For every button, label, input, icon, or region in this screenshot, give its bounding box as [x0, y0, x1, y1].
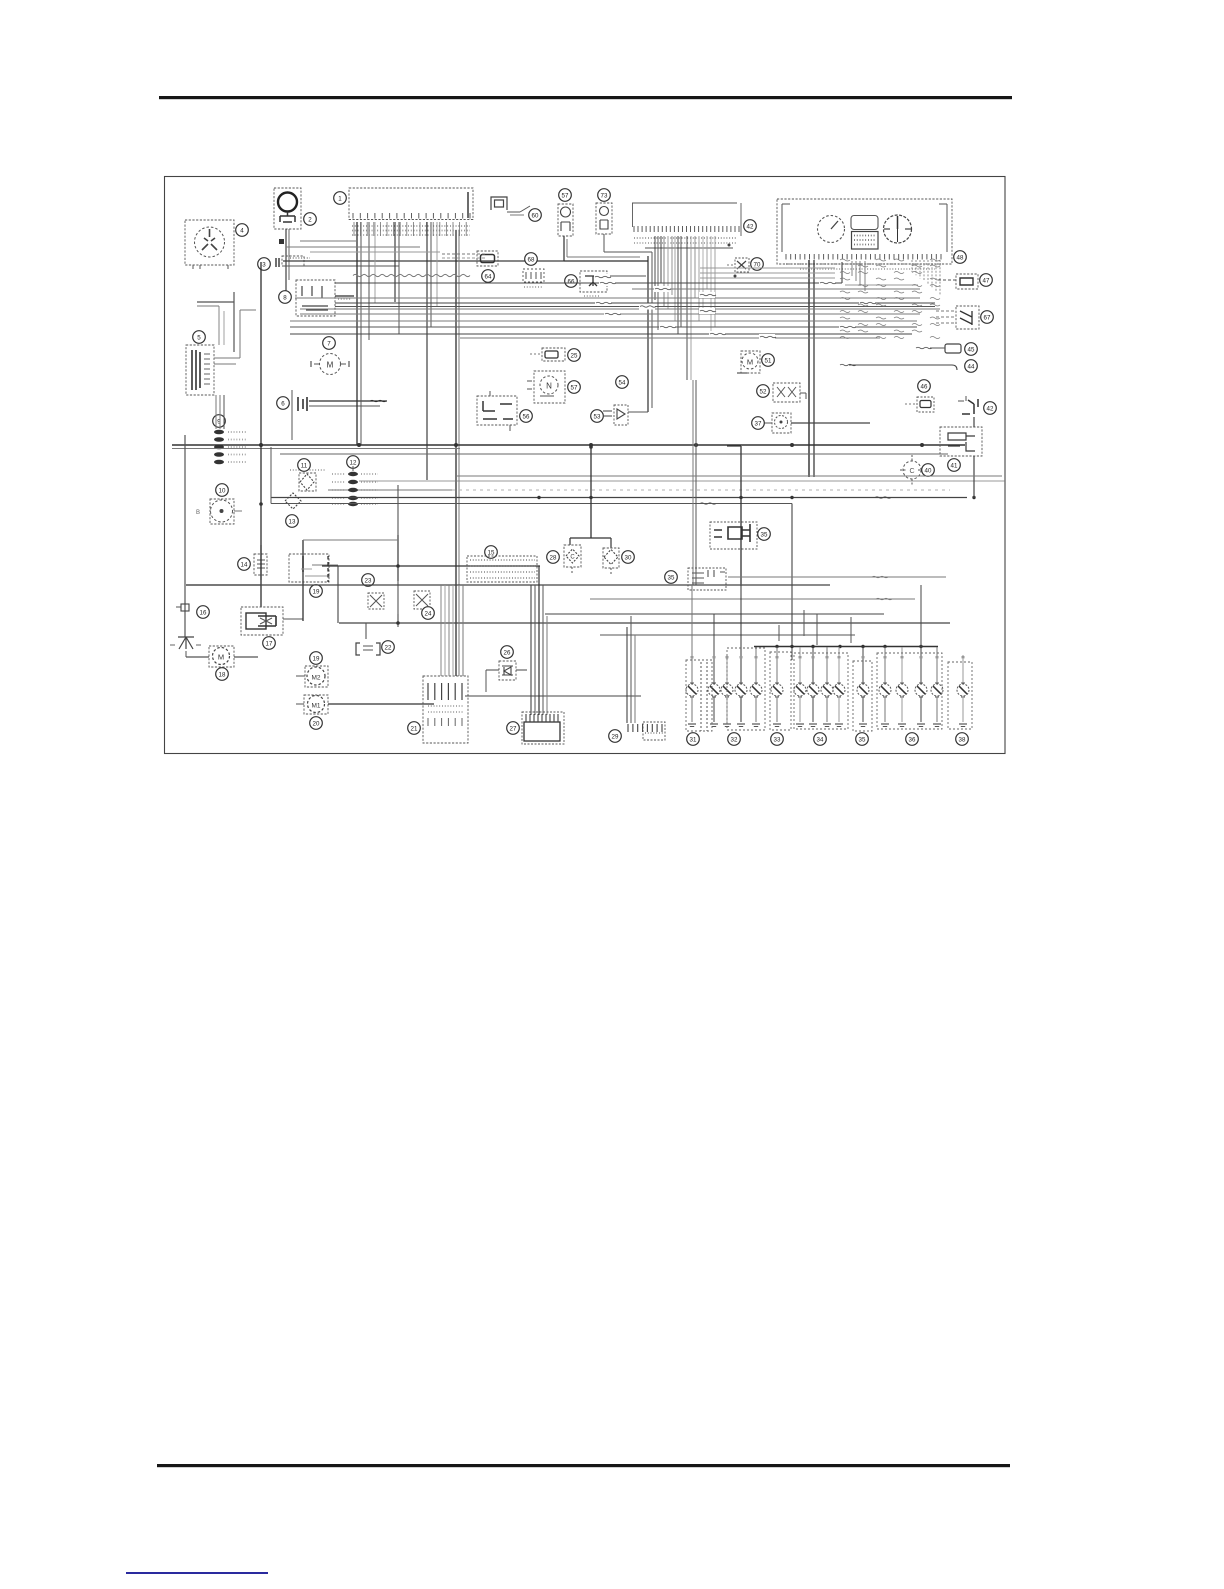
main trunk wires	[356, 222, 358, 445]
connector 29	[643, 722, 665, 740]
wire	[458, 585, 460, 676]
svg-text:48: 48	[957, 254, 964, 261]
connector 15 block	[485, 546, 498, 559]
harness connector 42	[632, 202, 737, 204]
wire	[185, 651, 187, 657]
svg-text:64: 64	[485, 273, 492, 280]
flasher relay 11	[299, 473, 316, 491]
fan motor 18	[209, 646, 234, 667]
svg-text:54: 54	[619, 379, 626, 386]
main bus wire	[172, 444, 965, 446]
svg-text:37: 37	[755, 420, 762, 427]
connector 9 stack	[214, 430, 224, 435]
svg-text:C: C	[909, 468, 914, 475]
instrument cluster 48	[777, 199, 952, 264]
diode 13	[285, 493, 301, 509]
svg-text:35: 35	[668, 574, 675, 581]
wire 44	[840, 364, 856, 365]
regulator 24	[414, 591, 430, 609]
svg-text:40: 40	[925, 467, 932, 474]
connector 5	[186, 345, 214, 395]
svg-text:28: 28	[550, 554, 557, 561]
wire	[214, 357, 240, 359]
svg-text:C: C	[570, 555, 575, 561]
svg-text:42: 42	[987, 405, 994, 412]
svg-text:22: 22	[385, 644, 392, 651]
ignition coil 57	[559, 189, 572, 202]
vertical feeders	[530, 585, 532, 715]
svg-text:45: 45	[968, 346, 975, 353]
diode pack 68	[525, 253, 538, 266]
svg-text:11: 11	[301, 462, 308, 469]
svg-text:N: N	[546, 382, 552, 391]
spark plug 73	[598, 189, 611, 202]
svg-text:13: 13	[289, 518, 296, 525]
svg-text:21: 21	[411, 725, 418, 732]
rectifier 8	[296, 280, 335, 316]
svg-text:53: 53	[594, 413, 601, 420]
svg-text:15: 15	[488, 549, 495, 556]
wire	[563, 236, 565, 261]
svg-text:33: 33	[774, 736, 781, 743]
diode unit 70	[735, 258, 749, 272]
magneto 4	[185, 220, 234, 265]
svg-text:41: 41	[951, 462, 958, 469]
ignition coil 2 57b	[534, 371, 565, 403]
wire	[339, 622, 950, 624]
svg-text:32: 32	[731, 736, 738, 743]
svg-text:34: 34	[817, 736, 824, 743]
svg-text:67: 67	[984, 314, 991, 321]
svg-text:19: 19	[313, 588, 320, 595]
svg-text:73: 73	[601, 192, 608, 199]
connector 12 stack	[348, 472, 358, 476]
wire	[215, 395, 217, 429]
svg-text:60: 60	[532, 212, 539, 219]
svg-text:M: M	[327, 361, 334, 370]
svg-text:19: 19	[313, 655, 320, 662]
regulator 52	[773, 383, 800, 402]
svg-text:24: 24	[425, 610, 432, 617]
svg-text:56: 56	[523, 413, 530, 420]
wire split to pumps	[570, 537, 611, 539]
svg-text:18: 18	[219, 671, 226, 678]
fan motor 7	[320, 354, 341, 375]
wire	[727, 445, 741, 447]
svg-text:M: M	[218, 653, 224, 662]
svg-text:30: 30	[625, 554, 632, 561]
svg-text:4: 4	[240, 227, 244, 234]
harness bus wires	[335, 282, 842, 284]
footer link underline	[126, 1572, 268, 1574]
bus wire lower	[186, 584, 830, 586]
starter motor 35	[714, 524, 750, 542]
connector 27	[522, 712, 564, 744]
speedometer gauge	[818, 216, 845, 243]
lamp group boxes	[686, 660, 712, 731]
sensor 37	[772, 413, 791, 433]
lcd display	[852, 232, 879, 250]
svg-text:16: 16	[200, 609, 207, 616]
svg-text:29: 29	[612, 733, 619, 740]
svg-text:6: 6	[281, 400, 285, 407]
connector block 21	[423, 676, 468, 743]
fuse 25	[542, 348, 565, 361]
sidestand switch 56	[477, 396, 517, 425]
indicator panel	[851, 216, 878, 230]
rectifier 20a	[368, 593, 384, 609]
svg-text:8: 8	[283, 294, 287, 301]
svg-text:35: 35	[859, 736, 866, 743]
cutoff relay 19	[289, 554, 329, 582]
battery 40	[903, 461, 921, 479]
plug lead 6	[298, 397, 307, 411]
starter relay 41	[940, 427, 982, 456]
horn 10	[210, 499, 234, 524]
svg-text:35: 35	[761, 531, 768, 538]
svg-text:46: 46	[921, 383, 928, 390]
resistor 3	[276, 258, 279, 267]
svg-text:7: 7	[327, 340, 331, 347]
lamp collector bus	[754, 646, 938, 648]
circle 23	[362, 574, 375, 587]
svg-text:17: 17	[266, 640, 273, 647]
sensor 28	[564, 545, 581, 567]
trunk wires right	[740, 446, 742, 584]
svg-text:B: B	[196, 510, 200, 516]
left frame wire	[184, 435, 186, 637]
svg-text:27: 27	[510, 725, 517, 732]
starter switch 42b	[962, 399, 978, 414]
svg-text:2: 2	[308, 216, 312, 223]
bus junction dots	[259, 443, 263, 447]
svg-text:25: 25	[571, 352, 578, 359]
diagram border frame	[165, 177, 1006, 754]
wire riser to cluster	[841, 262, 843, 283]
wires below cluster	[851, 261, 853, 276]
svg-text:68: 68	[528, 256, 535, 263]
svg-text:20: 20	[313, 720, 320, 727]
relay 47	[956, 274, 978, 289]
diode 53	[591, 410, 604, 423]
svg-text:M1: M1	[311, 703, 320, 710]
wire bus	[322, 565, 540, 567]
ground symbol	[178, 637, 194, 649]
svg-text:10: 10	[219, 487, 226, 494]
sensor 54b	[665, 571, 678, 584]
svg-text:57: 57	[571, 384, 578, 391]
svg-text:52: 52	[760, 388, 767, 395]
fuse 64	[477, 251, 498, 266]
wire break squiggles	[594, 274, 610, 280]
svg-text:12: 12	[350, 459, 357, 466]
ground lead 16	[181, 604, 189, 611]
fuse 46	[917, 397, 934, 412]
svg-text:70: 70	[754, 261, 761, 268]
resistor 14	[254, 554, 267, 575]
svg-text:51: 51	[765, 357, 772, 364]
svg-text:31: 31	[690, 736, 697, 743]
svg-text:3: 3	[262, 261, 266, 268]
svg-text:23: 23	[365, 577, 372, 584]
switch 45	[945, 344, 961, 353]
svg-text:M: M	[747, 358, 753, 367]
tachometer gauge	[884, 215, 912, 243]
handlebar switch 67	[956, 306, 979, 329]
wire fan from connector 42	[654, 236, 656, 300]
wire fan from CDI 1	[353, 222, 355, 236]
cluster connector comb	[786, 254, 941, 260]
svg-text:44: 44	[968, 363, 975, 370]
diode 26	[499, 661, 516, 680]
svg-text:14: 14	[241, 561, 248, 568]
thermo unit 66	[565, 275, 578, 288]
svg-text:1: 1	[338, 195, 342, 202]
svg-text:9: 9	[217, 418, 221, 425]
svg-text:5: 5	[197, 334, 201, 341]
svg-text:42: 42	[747, 223, 754, 230]
fan motor 20	[304, 695, 328, 714]
starter solenoid 17	[241, 607, 283, 635]
wire	[285, 229, 287, 300]
svg-text:M2: M2	[311, 675, 320, 682]
top rule	[159, 96, 1012, 99]
coil hash marks	[840, 259, 850, 261]
sensor 22	[356, 643, 380, 655]
svg-text:36: 36	[909, 736, 916, 743]
lamp circles labels	[687, 733, 700, 746]
wire	[352, 466, 354, 471]
trunk wire	[260, 262, 262, 607]
svg-text:47: 47	[983, 277, 990, 284]
clamp 60	[491, 197, 507, 210]
connector pin text rows	[352, 225, 470, 227]
svg-text:66: 66	[568, 278, 575, 285]
fan motor 19	[305, 666, 328, 687]
svg-text:38: 38	[959, 736, 966, 743]
harness jog wires	[300, 240, 357, 242]
servo motor 51	[741, 351, 760, 373]
sensor 30	[603, 548, 619, 568]
bottom rule	[157, 1464, 1010, 1467]
wire	[186, 584, 261, 586]
wavy harness bus	[700, 267, 835, 269]
svg-text:26: 26	[504, 649, 511, 656]
bulb row	[691, 585, 693, 684]
svg-text:57: 57	[562, 192, 569, 199]
headlamp bulb 2	[274, 188, 301, 229]
CDI unit 1	[349, 188, 473, 220]
